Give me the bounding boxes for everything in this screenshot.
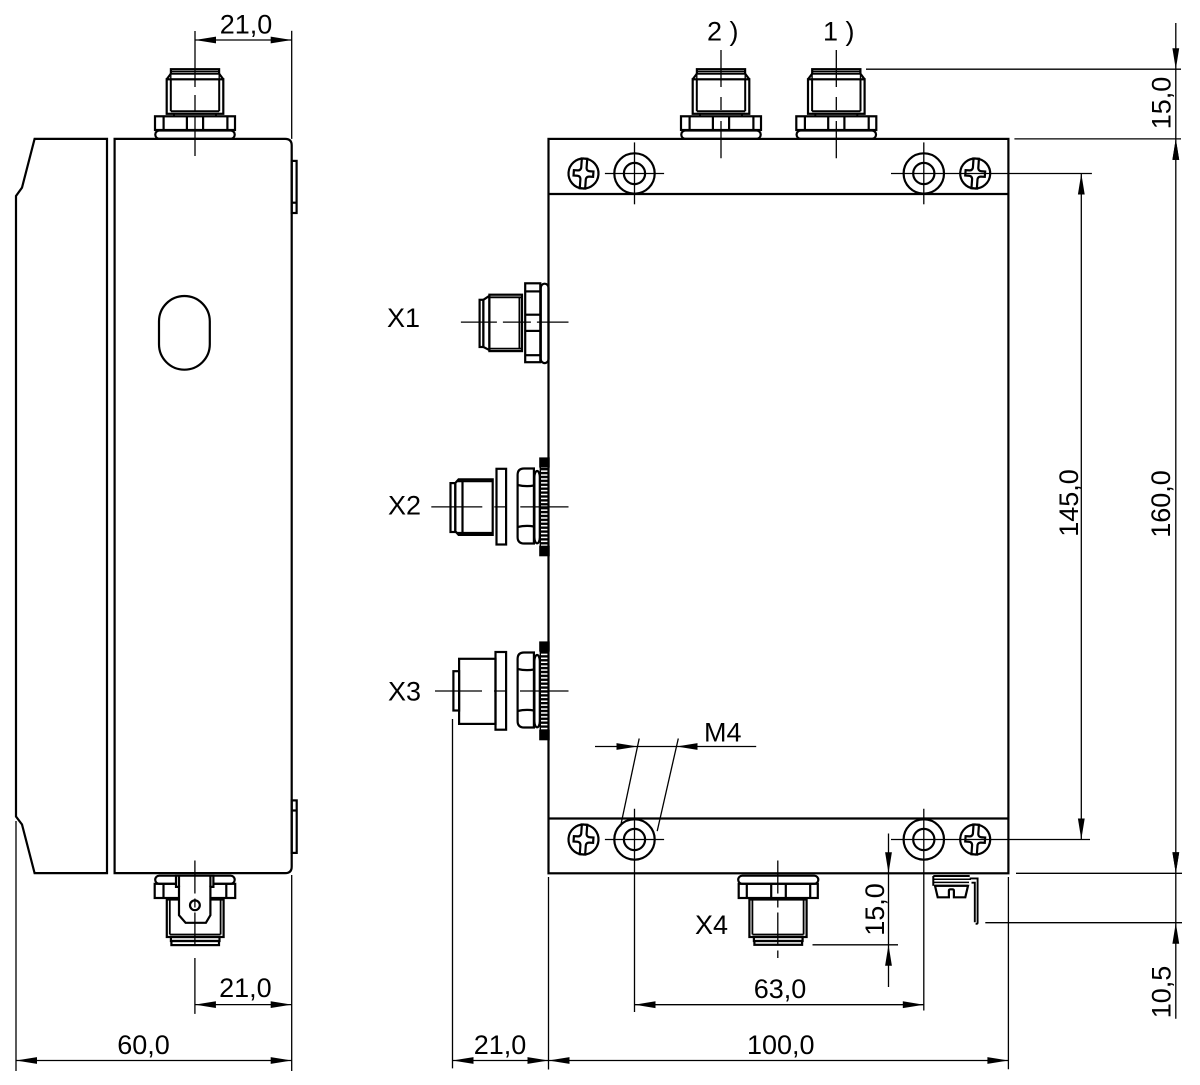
threaded barrel xyxy=(455,479,492,535)
centerline connector 1) xyxy=(835,50,837,158)
svg-text:21,0: 21,0 xyxy=(220,10,273,40)
ext line 21.0 bottom-left (below connector) xyxy=(194,958,196,1014)
svg-text:X1: X1 xyxy=(387,303,420,333)
end ring xyxy=(451,483,456,532)
dim 145.0 xyxy=(1080,174,1082,840)
dim vertical right column: 15.0 / 160.0 / 10.5 xyxy=(1175,23,1177,1019)
flange plate xyxy=(496,652,507,730)
socket housing xyxy=(459,659,495,724)
hex nut xyxy=(518,653,534,728)
top connector (left view), center x=195 xyxy=(155,69,235,139)
bottom-right mounting hole xyxy=(904,819,944,859)
top-left phillips screw xyxy=(567,157,599,189)
ext clip bottom (10.5 lower ref) xyxy=(985,922,1182,924)
M4 arrows (outside) xyxy=(617,743,638,750)
crosshair top-left hole vertical xyxy=(634,142,636,204)
ext 15.0 top (connector top level) xyxy=(866,68,1181,70)
dim 100.0 xyxy=(549,1060,1009,1062)
top connector 1), center x=836.3 xyxy=(796,69,876,139)
centerline X1 xyxy=(461,321,569,323)
crosshair+ext bottom-right holes horizontal (145.0 lower ref) xyxy=(891,839,1090,841)
bottom-left phillips screw xyxy=(567,823,599,855)
21.0 top arrows xyxy=(195,37,216,44)
svg-text:2 ): 2 ) xyxy=(707,17,739,47)
svg-text:21,0: 21,0 xyxy=(219,973,272,1003)
connector X2 (side view), center y=506.9 xyxy=(451,459,549,556)
ext X4 bottom (15.0 lower ref) xyxy=(813,944,899,946)
svg-text:15,0: 15,0 xyxy=(860,883,890,936)
svg-text:145,0: 145,0 xyxy=(1054,469,1084,537)
crosshair+ext top-right holes horizontal (145.0 upper ref) xyxy=(891,173,1092,175)
svg-text:21,0: 21,0 xyxy=(474,1030,527,1060)
ext body top edge to right xyxy=(1014,138,1181,140)
100.0 arrows xyxy=(549,1057,570,1064)
ext 21.0 mid left (X3 tip) xyxy=(452,719,454,1068)
connector X3 (side view), center y=691 xyxy=(453,643,548,740)
centerline X3 xyxy=(435,690,569,692)
top-right phillips screw xyxy=(959,157,991,189)
flange plate xyxy=(497,469,507,545)
top bracket lower edge xyxy=(549,193,1009,195)
rear mounting plate (left view) xyxy=(16,139,107,873)
dim M4 xyxy=(595,746,756,748)
centerline connector 2) xyxy=(720,50,722,158)
145.0 arrows xyxy=(1078,174,1085,195)
knurled nut xyxy=(540,459,548,556)
connector X1 (side view), center y=322.1 xyxy=(480,283,549,363)
dim 21.0 left view bottom xyxy=(195,1004,292,1006)
body outline xyxy=(549,139,1009,873)
ext body bottom edge to right xyxy=(1016,872,1182,874)
21.0 mid arrows xyxy=(453,1057,474,1064)
dim 15.0 at X4 xyxy=(888,834,890,988)
solder lug tab w/ hole (white fill covers parts behind) xyxy=(176,876,213,923)
oval cutout xyxy=(159,296,210,370)
ext 60.0/21.0 right (left-view body edge extended down) xyxy=(291,875,293,1071)
svg-text:60,0: 60,0 xyxy=(117,1030,170,1060)
thin lines: centerlines xyxy=(195,31,1092,1014)
washer xyxy=(534,471,539,543)
top-left mounting hole xyxy=(614,153,654,193)
dim 21.0 top xyxy=(195,39,292,41)
end tab xyxy=(453,671,459,710)
svg-text:100,0: 100,0 xyxy=(747,1030,815,1060)
svg-text:M4: M4 xyxy=(704,718,742,748)
ext+crosshair bottom-right hole vertical (63.0 right ref) xyxy=(923,809,925,1011)
svg-text:X4: X4 xyxy=(695,910,728,940)
dim 63.0 xyxy=(635,1004,924,1006)
washer xyxy=(534,655,539,727)
centerline top connector left view / ext for 21.0 top xyxy=(194,31,196,156)
crosshair bottom-left hole horizontal xyxy=(605,839,664,841)
15.0 top-right arrows (outside) xyxy=(1172,48,1179,69)
knurled nut xyxy=(540,643,548,740)
svg-text:1 ): 1 ) xyxy=(823,17,855,47)
M4 thread callout slanted lines xyxy=(621,739,640,827)
ext 60.0 left (plate edge extended down) xyxy=(15,821,17,1071)
60.0 arrows xyxy=(16,1057,37,1064)
bottom-left mounting hole xyxy=(614,819,654,859)
63.0 arrows xyxy=(635,1001,656,1008)
centerline X2 xyxy=(431,506,568,508)
bottom connector (left view), center x=194.9 xyxy=(155,876,236,945)
10.5 arrows (outside) xyxy=(1172,852,1179,873)
ext 21.0 top right (body edge extended up) xyxy=(291,31,293,139)
grounding clip (below bottom-right of front view) xyxy=(933,876,977,924)
21.0 left-bottom arrows xyxy=(195,1001,216,1008)
centerline X4 xyxy=(777,861,779,959)
ext 100.0 right (front body right edge extended down) xyxy=(1007,877,1009,1069)
connector X4 (bottom, front view), center x=777.8 xyxy=(738,876,818,945)
top connector 2), center x=721 xyxy=(681,69,761,139)
dim 21.0 bottom middle xyxy=(453,1060,549,1062)
main body (left view) xyxy=(115,139,292,873)
bottom-right phillips screw xyxy=(959,823,991,855)
15.0 X4 arrows (outside) xyxy=(885,852,892,873)
top-right mounting hole xyxy=(904,153,944,193)
mounting holes + phillips screws xyxy=(567,153,991,859)
svg-text:15,0: 15,0 xyxy=(1147,77,1177,130)
160.0 arrows xyxy=(1172,139,1179,160)
bottom bracket upper edge xyxy=(549,817,1009,819)
dim 60.0 xyxy=(16,1060,292,1062)
hex nut xyxy=(518,469,534,544)
crosshair top-left hole horizontal xyxy=(605,173,664,175)
svg-text:X2: X2 xyxy=(388,491,421,521)
right edge tab (bottom) xyxy=(292,800,297,853)
ext 21.0/100.0 (front body left edge extended down) xyxy=(548,877,550,1070)
centerline bottom connector left view xyxy=(194,861,196,946)
ext+crosshair bottom-left hole vertical (63.0 left ref) xyxy=(634,809,636,1012)
svg-text:160,0: 160,0 xyxy=(1146,470,1176,538)
svg-text:10,5: 10,5 xyxy=(1147,966,1177,1019)
svg-text:X3: X3 xyxy=(388,677,421,707)
right edge tab (top) xyxy=(292,161,297,213)
crosshair top-right hole vertical xyxy=(923,142,925,204)
svg-text:63,0: 63,0 xyxy=(754,974,807,1004)
